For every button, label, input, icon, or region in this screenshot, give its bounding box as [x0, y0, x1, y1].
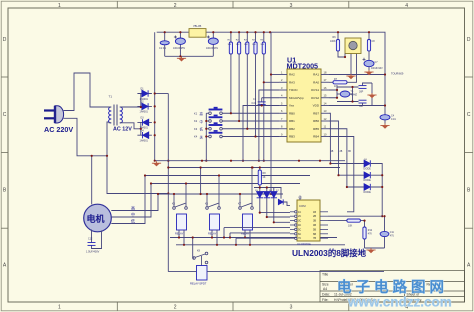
svg-text:RB0: RB0 [289, 111, 295, 115]
svg-text:T1: T1 [109, 95, 113, 99]
svg-text:4C: 4C [298, 224, 301, 227]
wire RB5 down [329, 129, 347, 187]
junction diode column [381, 174, 383, 217]
svg-text:3: 3 [290, 305, 293, 311]
svg-text:RB4: RB4 [313, 135, 319, 139]
junction rail caps [164, 31, 215, 57]
junction LED nodes [259, 186, 275, 223]
wire pin RA3 stub [264, 81, 279, 83]
wire bridge diode leads [137, 94, 152, 136]
svg-text:100UF/25V: 100UF/25V [173, 47, 185, 50]
wire motor low [111, 176, 145, 224]
svg-text:R12: R12 [368, 230, 373, 232]
svg-text:5B: 5B [313, 228, 316, 231]
capacitor C10 30P [359, 100, 367, 103]
wire R6 to sensor [338, 51, 345, 57]
svg-text:Date:: Date: [322, 292, 330, 296]
wire VDD pin14 to rail [329, 105, 385, 107]
wire R7 to sensor out [347, 54, 357, 83]
wire LED anodes [260, 188, 274, 192]
wire secondary bottom to bridge [123, 123, 141, 129]
svg-text:RB3: RB3 [289, 135, 295, 139]
capacitor C9 30P [359, 86, 367, 89]
svg-text:K1: K1 [194, 111, 198, 115]
svg-text:10K: 10K [236, 44, 240, 46]
diode D9 [364, 172, 370, 178]
svg-text:VDD: VDD [313, 104, 320, 108]
transformer T1 [109, 105, 123, 126]
junction motor taps [144, 174, 159, 195]
svg-text:ULN2003A: ULN2003A [297, 242, 311, 246]
wire SPDT common up [193, 238, 194, 259]
key switch K1 [206, 107, 279, 115]
svg-text:ULN2003的8脚接地: ULN2003的8脚接地 [292, 248, 367, 258]
svg-text:U2: U2 [299, 196, 303, 200]
svg-text:RB6: RB6 [313, 119, 319, 123]
junction bridge nodes [140, 92, 170, 194]
wire column6 through pin RA2 to bus [270, 32, 272, 194]
wire ULN in6 [230, 233, 290, 238]
svg-text:RA3: RA3 [289, 80, 295, 84]
wire RB4 down to ULN [329, 137, 354, 212]
plug P1 body flat bar [54, 106, 56, 123]
regulator U3 78L05 [189, 29, 206, 38]
svg-text:C: C [3, 112, 7, 118]
resistor R6 100K [336, 40, 339, 52]
op chip U1 MDT2005 body [287, 69, 321, 142]
wire D6 to ULN in2 [267, 198, 290, 217]
chip U2 ULN2003A body [297, 200, 320, 241]
svg-text:TOUR/609: TOUR/609 [391, 72, 404, 76]
wire bottom rail 2 [176, 244, 345, 246]
svg-text:COM: COM [299, 204, 306, 208]
wire Vss to gnd rail [243, 106, 279, 161]
capacitor C0 0.01 on MCLR [258, 102, 266, 105]
ground at C4 [380, 124, 389, 129]
wire column to ULN input [328, 215, 382, 217]
junction SPDT common [192, 236, 194, 238]
svg-text:电机: 电机 [87, 213, 105, 224]
U2 pin stubs and input circles [290, 196, 328, 240]
wire R1 top lead [230, 32, 232, 42]
ground at regulator [177, 56, 186, 61]
svg-text:1B: 1B [331, 151, 334, 153]
svg-text:T0CKI: T0CKI [289, 88, 298, 92]
svg-text:10K: 10K [244, 44, 248, 46]
svg-text:1: 1 [58, 305, 61, 311]
sensor U4 lens circle [349, 41, 357, 49]
resistor R8 1K [258, 170, 261, 185]
svg-text:D: D [3, 37, 7, 43]
relay coil RELAY1 [177, 214, 187, 230]
motor M1 [84, 204, 112, 232]
svg-text:AC 12V: AC 12V [113, 127, 132, 133]
key switch K2 [206, 115, 279, 123]
svg-text:DIODE: DIODE [364, 180, 372, 182]
plug P1 prongs [44, 109, 55, 119]
U1 pin numbers left 1-9 [281, 70, 283, 136]
wire coil2 right pin [216, 230, 218, 245]
svg-text:3B: 3B [348, 151, 351, 153]
wire bus rail B [168, 167, 340, 169]
svg-text:K4: K4 [194, 135, 198, 139]
wire R2 top lead [238, 32, 240, 42]
diode D8 [364, 160, 370, 166]
ground at crystal [367, 93, 376, 98]
svg-text:File:: File: [322, 298, 328, 302]
wire ULN in5 [224, 228, 290, 238]
junction key rows [205, 112, 256, 162]
wire column R3 to K3 [246, 54, 248, 129]
junction relay rail [173, 166, 253, 195]
title block text [322, 273, 440, 302]
wire bridge left upper [140, 94, 142, 107]
svg-text:7B: 7B [313, 237, 316, 240]
svg-text:RELAY-SPDT: RELAY-SPDT [190, 282, 207, 286]
svg-text:RA1: RA1 [313, 73, 319, 77]
wire column R1 to K1 [230, 54, 232, 113]
wire RA1 pin18 to rail [329, 74, 385, 76]
wire node to motor top [91, 156, 93, 205]
capacitor C4 0.1U decoupling [380, 115, 390, 120]
capacitor C1 0.1 [160, 41, 169, 45]
wire C0 leads [261, 98, 263, 106]
wire diode cathodes column [371, 164, 382, 217]
wire bridge right column down to gnd rail [154, 32, 156, 161]
wire LED rail [254, 188, 281, 199]
svg-text:5C: 5C [298, 228, 301, 231]
resistor C8 [367, 40, 370, 52]
svg-text:RB1: RB1 [289, 119, 295, 123]
relay coil RELAY3 [243, 214, 253, 230]
junction crystal nodes [336, 86, 354, 103]
diode D4 1N4001 [143, 132, 149, 138]
resistor R3 10K [246, 42, 249, 54]
svg-text:C12: C12 [88, 238, 93, 241]
svg-text:47U: 47U [390, 236, 395, 238]
wire SPDT coil right [207, 271, 384, 273]
svg-text:RA0: RA0 [313, 80, 319, 84]
svg-text:6C: 6C [298, 233, 301, 236]
wire bus rail E [158, 193, 283, 195]
wire gnd rail [155, 160, 345, 162]
U1 pin names right [311, 73, 320, 139]
wire R6 top [337, 32, 339, 39]
relay switch K6 [206, 176, 221, 210]
svg-text:0.1U: 0.1U [391, 118, 396, 121]
svg-text:1C: 1C [298, 211, 301, 214]
svg-text:1: 1 [58, 3, 61, 9]
svg-text:1N4001: 1N4001 [140, 111, 149, 114]
svg-text:3: 3 [290, 3, 293, 9]
crystal Y1 body [340, 91, 350, 97]
capacitor C3 100uF/16V [207, 36, 219, 45]
capacitor C12 1.5uF/400V [88, 243, 96, 246]
key switch K4 [206, 130, 279, 138]
diode D2 1N4001 [142, 103, 148, 109]
svg-text:C1 0.1: C1 0.1 [159, 47, 167, 50]
diode D7 [271, 192, 277, 198]
wire R4 top lead [255, 32, 257, 42]
wire C7 to gnd [368, 67, 370, 71]
svg-text:2B: 2B [313, 215, 316, 218]
diode D11 [278, 199, 283, 204]
junction rail right [384, 73, 386, 106]
wire D7 to ULN in3 [274, 198, 290, 223]
wire node to transformer primary bottom [107, 122, 109, 156]
svg-text:D: D [467, 37, 471, 43]
resistor R4 10K [254, 42, 257, 54]
wire motor cap loop [92, 230, 102, 249]
wire C4 to ground [384, 120, 386, 124]
wire diode rows [330, 164, 364, 188]
wire plug-top to transformer primary top [64, 73, 109, 111]
svg-text:C11: C11 [390, 232, 395, 234]
diode D3 1N4001 [143, 119, 149, 125]
wire sensor pin1 [344, 54, 346, 58]
svg-text:2: 2 [174, 305, 177, 311]
svg-text:低: 低 [131, 217, 135, 223]
wire ULN in7 [236, 238, 290, 245]
junction bus rails [154, 160, 322, 169]
wire MCLR to C0 [262, 97, 279, 99]
svg-text:OCS2: OCS2 [311, 96, 320, 100]
svg-text:3B: 3B [313, 220, 316, 223]
wire coil3 right pin [249, 230, 251, 245]
svg-text:0.01: 0.01 [252, 102, 257, 105]
junction R8 top [259, 166, 261, 168]
svg-text:4: 4 [405, 3, 408, 9]
relay switch K8 SPDT [193, 252, 208, 265]
relay switch K5 [173, 184, 188, 210]
capacitor C11 47U [380, 231, 389, 236]
diode D6 [264, 192, 270, 198]
svg-text:高: 高 [131, 204, 135, 210]
svg-text:1K: 1K [263, 176, 266, 179]
wire to SPDT coil left [168, 271, 196, 273]
wire bridge tap [155, 93, 169, 95]
svg-text:RA2: RA2 [289, 73, 295, 77]
svg-text:K3: K3 [194, 127, 198, 131]
resistor R7 10K [333, 81, 347, 84]
svg-text:MCLR/Vpp: MCLR/Vpp [289, 96, 304, 100]
svg-text:10K: 10K [252, 44, 256, 46]
diode D10 [364, 184, 370, 190]
wire R5 top lead [263, 32, 265, 42]
wire +12V rail top [157, 32, 385, 115]
relay coil RELAY-SPDT [197, 266, 208, 281]
svg-text:10K: 10K [348, 224, 353, 227]
svg-text:10K: 10K [228, 44, 232, 46]
svg-text:RB2: RB2 [289, 127, 295, 131]
wire RA0 to R7 [329, 81, 333, 83]
wire column R4 to K4 [255, 54, 257, 137]
diode D5 [257, 192, 263, 198]
key switch K3 [206, 122, 279, 130]
svg-text:78L05: 78L05 [193, 24, 202, 28]
svg-text:电子电路图网: 电子电路图网 [337, 278, 448, 296]
svg-text:中: 中 [131, 211, 135, 217]
wire coil2 left pin [211, 230, 213, 238]
wire to load caps [337, 87, 359, 102]
wire secondary top to bridge [123, 106, 141, 108]
svg-text:A4: A4 [323, 287, 327, 291]
junction ULN in taps [223, 236, 237, 246]
wire column R2 to K2 [238, 54, 240, 121]
wire cap leads to gnd bus [165, 32, 214, 56]
svg-text:30P: 30P [359, 91, 364, 94]
resistor R5 10K [262, 42, 265, 54]
diode D1 1N4001 [142, 90, 148, 96]
U1 pin names left [289, 73, 304, 139]
svg-text:6B: 6B [313, 233, 316, 236]
wire OCS1 OCS2 to crystal column [329, 87, 337, 98]
wire RB6 down [329, 121, 339, 175]
resistor R12 47K [363, 227, 366, 239]
ground at C7 [364, 70, 373, 75]
svg-text:7C: 7C [298, 237, 301, 240]
svg-text:MDT2005: MDT2005 [287, 62, 319, 71]
junction sensor nodes [337, 31, 370, 58]
relay switch K7 [239, 168, 254, 210]
U1 pin stubs [279, 75, 329, 137]
junction coil pins [178, 236, 251, 246]
svg-text:www.cndzz.com: www.cndzz.com [347, 295, 452, 310]
ground at R12 [366, 248, 375, 253]
wire pin RA2 stub [271, 74, 279, 76]
svg-text:1B: 1B [313, 211, 316, 214]
wire bottom rail 1 [170, 237, 337, 239]
svg-text:100K: 100K [330, 40, 336, 43]
junction R12 top [363, 215, 385, 222]
svg-text:100UF/16V: 100UF/16V [371, 68, 383, 70]
wire R8 top lead [259, 168, 261, 171]
wire bridge left lower [140, 122, 142, 135]
wire motor mid [111, 184, 151, 218]
wire bus rail D [151, 183, 300, 185]
wire Y1 right column [350, 87, 353, 102]
svg-text:1.5UF/400V: 1.5UF/400V [86, 251, 100, 254]
wire caps to ground column [363, 83, 373, 106]
resistor R11 10K [347, 219, 361, 222]
junction rail resistor row [230, 31, 271, 33]
wire gnd bus under regulator [165, 55, 214, 57]
svg-text:Title: Title [322, 273, 328, 277]
svg-text:10K: 10K [334, 85, 339, 88]
svg-text:OCS1: OCS1 [311, 88, 320, 92]
wire C8 bottom [368, 51, 370, 61]
wire node down to bus [107, 156, 168, 194]
sensor U4 body [345, 38, 361, 54]
wire bus rail C [145, 175, 310, 177]
svg-text:C: C [467, 112, 471, 118]
ground at rail [152, 161, 161, 166]
junction RA pins [263, 73, 272, 195]
resistor R1 10K [229, 42, 232, 54]
svg-text:DIODE: DIODE [364, 192, 372, 194]
svg-text:47K: 47K [368, 234, 373, 236]
svg-text:2B: 2B [340, 151, 343, 153]
capacitor C7 100uF/16V [363, 58, 375, 67]
capacitor C2 100uF/25V [174, 36, 186, 45]
svg-text:RB5: RB5 [313, 127, 319, 131]
wire coil3 left pin [244, 230, 246, 238]
junction diode feed bends [329, 162, 348, 188]
U1 pin numbers right 18-10 [324, 70, 327, 136]
wire motor high [111, 194, 158, 211]
svg-text:DIODE: DIODE [364, 169, 372, 171]
wire key common to gnd rail [205, 113, 207, 160]
wire D5 to ULN in1 [260, 198, 290, 213]
wire coil1 left pin [178, 230, 180, 238]
plug P1 body [55, 106, 64, 123]
resistor R2 10K [238, 42, 241, 54]
svg-text:10K: 10K [260, 44, 264, 46]
svg-text:2: 2 [174, 3, 177, 9]
wire D11 to ULN top pin [283, 202, 290, 206]
wire ULN to R11 [328, 220, 347, 222]
wire plug-bottom to node [64, 118, 107, 156]
svg-text:K2: K2 [194, 119, 198, 123]
ground at sensor [346, 74, 355, 79]
wire R8 bottom [259, 185, 261, 188]
U2 pin names [298, 211, 316, 240]
wire long left vertical [167, 94, 169, 272]
wire sensor gnd lead [350, 54, 352, 75]
wire RB7 down [329, 113, 330, 163]
wire Y1 left [337, 93, 340, 95]
svg-text:RB7: RB7 [313, 111, 319, 115]
wire R12 C11 node [360, 216, 384, 248]
svg-text:1N4001: 1N4001 [140, 140, 149, 143]
svg-text:AC 220V: AC 220V [44, 125, 73, 134]
junction node AC-N [91, 155, 109, 157]
svg-text:100UF/16V: 100UF/16V [206, 47, 218, 50]
wire bus to relay rail riser [200, 168, 202, 195]
title block [320, 271, 465, 303]
wire column R5 through pin RA3 to gnd rail [263, 54, 265, 161]
wire coil1 right pin [183, 230, 185, 245]
junction Vss T0CKI nodes [242, 104, 263, 161]
svg-text:3C: 3C [298, 220, 301, 223]
wire R3 top lead [246, 32, 248, 42]
wire C8 top [368, 32, 370, 39]
svg-text:2C: 2C [298, 215, 301, 218]
svg-text:Vss: Vss [289, 104, 295, 108]
svg-text:4B: 4B [313, 224, 316, 227]
relay coil RELAY2 [210, 214, 220, 230]
wire T0CKI down to gnd rail [259, 90, 279, 161]
